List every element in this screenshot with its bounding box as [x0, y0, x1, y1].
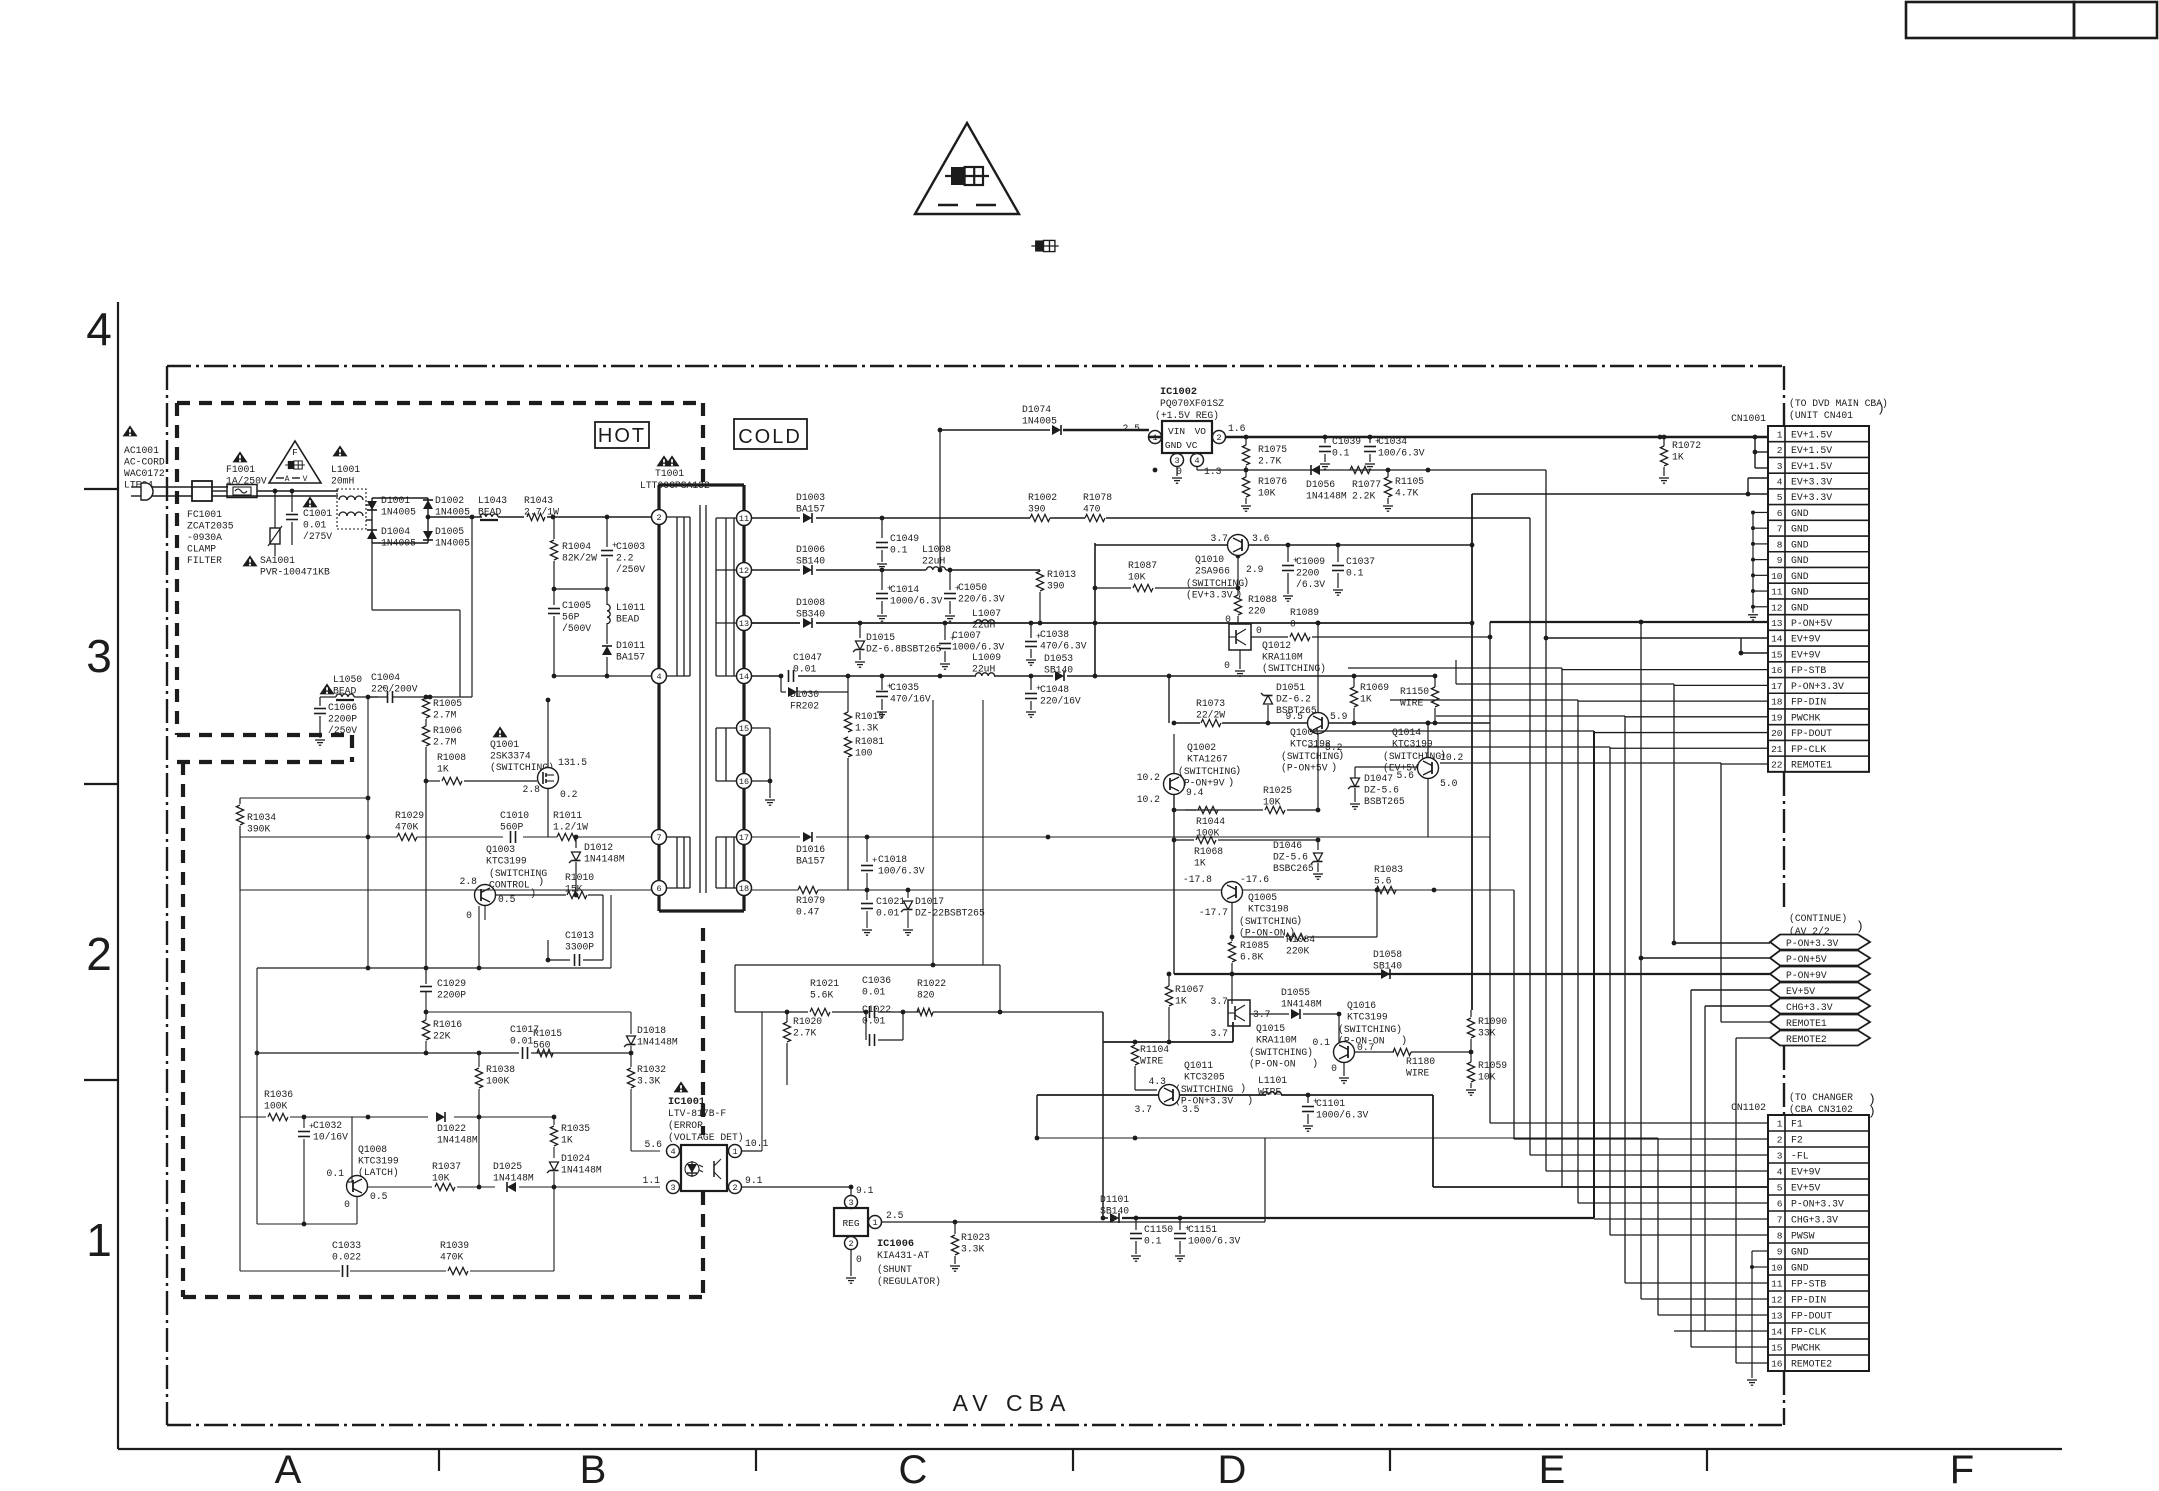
svg-text:Q1010: Q1010	[1195, 554, 1224, 565]
svg-text:C1150: C1150	[1144, 1224, 1173, 1235]
svg-text:DZ-22BSBT265: DZ-22BSBT265	[915, 908, 985, 919]
svg-text:EV+1.5V: EV+1.5V	[1791, 461, 1832, 472]
wire snubber mid	[552, 587, 610, 592]
grid column label E	[1539, 1448, 1566, 1491]
wire EV+3.3V switched rail	[1095, 543, 1474, 559]
svg-text:10/16V: 10/16V	[313, 1132, 348, 1143]
svg-text:R1083: R1083	[1374, 864, 1403, 875]
capacitor C1038 470/6.3V	[1025, 623, 1087, 665]
svg-text:GND: GND	[1165, 440, 1182, 451]
continuation note (CONTINUE AV 2/2)	[1789, 913, 1864, 937]
ferrite bead L1011	[607, 589, 645, 644]
bus wire	[1513, 890, 1515, 1139]
svg-text:2SK3374: 2SK3374	[490, 751, 531, 762]
svg-text:F1001: F1001	[226, 464, 255, 475]
wire choke taps	[366, 505, 372, 520]
svg-text:Q1004: Q1004	[1290, 727, 1319, 738]
svg-text:C1049: C1049	[890, 533, 919, 544]
svg-text:100K: 100K	[1196, 828, 1219, 839]
svg-text:(UNIT CN401: (UNIT CN401	[1789, 410, 1853, 421]
diode D1053 SB140	[1044, 653, 1073, 681]
capacitor C1032 10/16V	[298, 1115, 348, 1145]
svg-text:11: 11	[1771, 1279, 1783, 1290]
svg-text:2: 2	[656, 513, 661, 523]
resistor R1005 2.7M	[422, 695, 462, 721]
svg-text:3.5: 3.5	[1182, 1104, 1200, 1115]
svg-text:REMOTE2: REMOTE2	[1791, 1359, 1832, 1370]
svg-text:0.5: 0.5	[370, 1191, 388, 1202]
svg-text:4: 4	[1194, 456, 1199, 466]
wire to CN1001	[1594, 732, 1768, 734]
svg-text:(EV+3.3V: (EV+3.3V	[1186, 590, 1233, 601]
svg-text:4: 4	[670, 1147, 675, 1157]
svg-text:R1078: R1078	[1083, 492, 1112, 503]
svg-text:PWCHK: PWCHK	[1791, 712, 1821, 723]
wire to CN1001	[1674, 684, 1768, 686]
diode D1030 FR202	[781, 674, 850, 712]
clamp filter FC1001 ZCAT2035-0930A	[187, 481, 234, 566]
net flag EV+5V	[1770, 983, 1870, 998]
svg-text:0.022: 0.022	[332, 1252, 361, 1263]
svg-text:L1101: L1101	[1258, 1075, 1287, 1086]
wire P-ON+3.3V drive row	[1101, 1022, 1233, 1220]
svg-text:Q1008: Q1008	[358, 1144, 387, 1155]
svg-text:5: 5	[1777, 492, 1783, 503]
transformer pin 12	[737, 563, 752, 578]
svg-text:1: 1	[732, 1147, 737, 1157]
svg-text:D1047: D1047	[1364, 773, 1393, 784]
board outline dash-dot right lower	[1783, 1046, 1785, 1114]
svg-text:R1150: R1150	[1400, 686, 1429, 697]
svg-text:12: 12	[1771, 1295, 1783, 1306]
svg-text:10: 10	[1771, 1263, 1783, 1274]
board outline dash-dot bottom	[167, 1424, 1784, 1426]
bus wire	[1657, 1138, 1659, 1315]
svg-text:7: 7	[1777, 524, 1783, 535]
svg-text:1N4005: 1N4005	[435, 507, 470, 518]
net flag REMOTE2	[1770, 1031, 1870, 1046]
svg-text:8: 8	[1777, 539, 1783, 550]
svg-text:8: 8	[1777, 1231, 1783, 1242]
resistor R1006 2.7M	[422, 719, 462, 984]
svg-text:9.1: 9.1	[856, 1185, 874, 1196]
svg-text:33K: 33K	[1478, 1028, 1496, 1039]
svg-text:FR202: FR202	[790, 701, 819, 712]
resistor R1081 100	[844, 736, 884, 890]
choke L1001 20mH	[331, 445, 360, 486]
board outline dash-dot right upper	[1783, 366, 1785, 426]
svg-text:0.1: 0.1	[1332, 448, 1350, 459]
resistor R1090 33K	[1467, 1010, 1507, 1052]
grid row label 3	[86, 630, 112, 682]
svg-text:5.0: 5.0	[1440, 778, 1458, 789]
transistor Q1008 KTC3199 latch	[327, 1144, 399, 1210]
COLD label	[734, 419, 807, 449]
bead L1050	[320, 674, 378, 700]
bus wire	[1735, 1038, 1737, 1363]
svg-text:3: 3	[86, 630, 112, 682]
svg-text:B: B	[580, 1448, 607, 1491]
svg-text:-17.8: -17.8	[1183, 874, 1212, 885]
wire pin4 loop	[552, 674, 652, 679]
svg-text:C1048: C1048	[1040, 684, 1069, 695]
svg-text:(+1.5V REG): (+1.5V REG)	[1155, 410, 1219, 421]
transistor Q1001 2SK3374 switching	[490, 726, 587, 800]
svg-text:GND: GND	[1791, 524, 1809, 535]
diode D1002 1N4005	[423, 495, 470, 518]
zener D1015 DZ-6.8BSBT265	[853, 623, 942, 667]
resistor R1084 220K	[1230, 888, 1380, 957]
svg-text:560: 560	[533, 1040, 551, 1051]
svg-text:R1016: R1016	[433, 1019, 462, 1030]
svg-text:GND: GND	[1791, 571, 1809, 582]
svg-text:VO: VO	[1195, 426, 1207, 437]
wire latch base/collector	[257, 1053, 432, 1226]
svg-text:PVR-100471KB: PVR-100471KB	[260, 567, 330, 578]
svg-text:C1151: C1151	[1188, 1224, 1217, 1235]
svg-text:1.3: 1.3	[1204, 466, 1222, 477]
resistor R1020 2.7K	[783, 1010, 822, 1085]
zener D1046 DZ-5.6 BSBC265	[1273, 840, 1323, 879]
hot area dashed divider lower	[701, 928, 705, 1297]
svg-text:2.9: 2.9	[1246, 564, 1264, 575]
svg-text:3: 3	[1777, 1151, 1783, 1162]
resistor R1180 WIRE	[1393, 1048, 1473, 1078]
svg-text:13: 13	[1771, 618, 1783, 629]
diode D1024 1N4148M	[547, 1153, 602, 1271]
grid column tick	[1706, 1449, 1708, 1471]
svg-text:0.1: 0.1	[1346, 568, 1364, 579]
svg-text:3.7: 3.7	[1211, 996, 1229, 1007]
capacitor C1021 0.01	[861, 890, 905, 935]
grid column label C	[899, 1448, 928, 1491]
svg-text:1000/6.3V: 1000/6.3V	[1316, 1110, 1369, 1121]
svg-text:6: 6	[1777, 1199, 1783, 1210]
svg-text:10.2: 10.2	[1137, 794, 1160, 805]
svg-text:): )	[1243, 577, 1249, 589]
svg-text:2.7K: 2.7K	[793, 1028, 816, 1039]
svg-text:(REGULATOR): (REGULATOR)	[877, 1276, 941, 1287]
svg-text:4: 4	[1777, 1167, 1783, 1178]
svg-text:3.3K: 3.3K	[961, 1244, 984, 1255]
svg-text:VIN: VIN	[1168, 426, 1185, 437]
svg-text:(P-ON+5V: (P-ON+5V	[1281, 763, 1328, 774]
svg-text:10.2: 10.2	[1137, 772, 1160, 783]
svg-text:R1076: R1076	[1258, 476, 1287, 487]
svg-text:19: 19	[1771, 712, 1783, 723]
capacitor C1014 1000/6.3V	[876, 570, 943, 621]
svg-text:390K: 390K	[247, 824, 270, 835]
svg-text:EV+1.5V: EV+1.5V	[1791, 445, 1832, 456]
transistor Q1010 2SA966 switching EV+3.3V	[1186, 533, 1270, 601]
svg-text:EV+5V: EV+5V	[1791, 1183, 1821, 1194]
inductor L1009 22uH	[972, 652, 1001, 676]
svg-text:R1068: R1068	[1194, 846, 1223, 857]
resistor R1034 390K	[236, 796, 370, 890]
svg-text:D1002: D1002	[435, 495, 464, 506]
svg-text:R1089: R1089	[1290, 607, 1319, 618]
svg-text:C1036: C1036	[862, 975, 891, 986]
svg-text:C1050: C1050	[958, 582, 987, 593]
svg-text:C1032: C1032	[313, 1120, 342, 1131]
svg-text:2.7K: 2.7K	[1258, 456, 1281, 467]
svg-text:HOT: HOT	[598, 425, 646, 447]
resistor R1032 3.3K	[627, 1053, 666, 1151]
diode D1012 1N4148M	[569, 835, 625, 895]
svg-text:3.7: 3.7	[1211, 533, 1229, 544]
resistor R1025 10K	[1185, 785, 1320, 814]
wire opto connections	[742, 1012, 853, 1189]
resistor R1072 1K	[1659, 435, 1701, 484]
net flag REMOTE1	[1770, 1015, 1870, 1030]
svg-text:20: 20	[1771, 728, 1783, 739]
diode D1018 1N4148M	[624, 1012, 678, 1053]
diode D1056 1N4148M	[1306, 465, 1347, 502]
bus wire	[1690, 990, 1692, 1347]
svg-text:11: 11	[739, 514, 749, 524]
svg-text:R1013: R1013	[1047, 569, 1076, 580]
svg-text:1.6: 1.6	[1228, 423, 1246, 434]
inductor L1007 22uH	[972, 608, 1001, 631]
svg-text:DZ-5.6: DZ-5.6	[1273, 852, 1308, 863]
resistor R1021 5.6K	[735, 978, 866, 1016]
svg-text:R1019: R1019	[855, 711, 884, 722]
svg-text:WIRE: WIRE	[1140, 1056, 1163, 1067]
svg-text:KTC3199: KTC3199	[1392, 739, 1433, 750]
svg-text:470/16V: 470/16V	[890, 694, 931, 705]
svg-text:R1075: R1075	[1258, 444, 1287, 455]
svg-text:/500V: /500V	[562, 623, 591, 634]
svg-text:R1090: R1090	[1478, 1016, 1507, 1027]
diode D1003 BA157	[796, 492, 825, 523]
svg-text:BA157: BA157	[796, 856, 825, 867]
transformer pin 17	[737, 830, 752, 845]
svg-text:16: 16	[1771, 1359, 1783, 1370]
svg-text:56P: 56P	[562, 612, 580, 623]
svg-text:WIRE: WIRE	[1400, 698, 1423, 709]
svg-text:SB340: SB340	[796, 609, 825, 620]
varistor SA1001	[243, 491, 330, 578]
resistor R1104 WIRE	[1131, 1042, 1169, 1090]
title block box 1	[1906, 2, 2074, 38]
svg-text:D1055: D1055	[1281, 987, 1310, 998]
svg-text:17: 17	[739, 833, 749, 843]
svg-text:KTC3199: KTC3199	[1347, 1012, 1388, 1023]
svg-text:(P-ON-ON: (P-ON-ON	[1249, 1059, 1296, 1070]
svg-text:22: 22	[1771, 759, 1783, 770]
svg-text:L1001: L1001	[331, 464, 360, 475]
svg-text:5.9: 5.9	[1330, 711, 1348, 722]
svg-text:/250V: /250V	[328, 725, 357, 736]
svg-text:BEAD: BEAD	[478, 507, 501, 518]
svg-text:1N4005: 1N4005	[435, 538, 470, 549]
svg-text:FC1001: FC1001	[187, 509, 222, 520]
capacitor C1049 0.1	[876, 518, 919, 569]
svg-text:SA1001: SA1001	[260, 555, 295, 566]
capacitor C1003 2.2/250V	[601, 517, 645, 589]
hot area dashed left lower	[181, 762, 185, 1297]
connector CN1102 (TO CHANGER / CBA CN3102)	[1731, 1092, 1876, 1371]
svg-text:R1020: R1020	[793, 1016, 822, 1027]
resistor R1022 820	[917, 978, 1002, 1016]
svg-text:1.1: 1.1	[643, 1175, 661, 1186]
svg-text:D1011: D1011	[616, 640, 645, 651]
resistor R1087 10K	[1095, 560, 1240, 592]
svg-text:2: 2	[1777, 1135, 1783, 1146]
svg-text:10K: 10K	[1478, 1072, 1496, 1083]
svg-text:SB140: SB140	[1100, 1206, 1129, 1217]
board outline dash-dot right mid	[1783, 772, 1785, 908]
wire IC1006 pin1	[882, 1138, 1265, 1224]
IC1002 PQ070XF01SZ +1.5V regulator	[1123, 386, 1246, 483]
svg-text:3.6: 3.6	[1252, 533, 1270, 544]
svg-text:100K: 100K	[486, 1076, 509, 1087]
svg-text:R1025: R1025	[1263, 785, 1292, 796]
svg-text:ZCAT2035: ZCAT2035	[187, 521, 234, 532]
grid column tick	[1389, 1449, 1391, 1471]
svg-text:BEAD: BEAD	[616, 614, 639, 625]
diode D1022 1N4148M	[366, 1112, 554, 1146]
svg-text:0.1: 0.1	[1313, 1037, 1331, 1048]
svg-text:Q1002: Q1002	[1187, 742, 1216, 753]
wire pin11 rail +3.3V	[751, 428, 1530, 521]
svg-text:(SWITCHING: (SWITCHING	[1178, 766, 1236, 777]
svg-text:PWCHK: PWCHK	[1791, 1343, 1821, 1354]
common-mode choke	[337, 489, 366, 529]
svg-text:/6.3V: /6.3V	[1296, 579, 1325, 590]
svg-text:0: 0	[1256, 625, 1262, 636]
svg-text:0: 0	[1290, 619, 1296, 630]
wire pin12 rail	[751, 568, 1040, 573]
diode D1006 SB140	[796, 544, 825, 575]
svg-text:D: D	[1218, 1448, 1247, 1491]
optocoupler IC1001 LTV-817B-F error voltage det	[643, 1081, 769, 1193]
svg-text:1.2/1W: 1.2/1W	[553, 822, 588, 833]
wire feedback row	[240, 836, 652, 838]
svg-text:PQ070XF01SZ: PQ070XF01SZ	[1160, 398, 1224, 409]
svg-text:): )	[1235, 765, 1241, 777]
svg-text:CLAMP: CLAMP	[187, 544, 216, 555]
svg-text:GND: GND	[1791, 587, 1809, 598]
svg-text:2200P: 2200P	[437, 990, 466, 1001]
resistor R1043 2.7/1W	[498, 495, 559, 521]
svg-text:10K: 10K	[1258, 488, 1276, 499]
svg-text:2: 2	[1216, 433, 1221, 443]
svg-text:220: 220	[1248, 606, 1266, 617]
svg-text:DZ-6.2: DZ-6.2	[1276, 694, 1311, 705]
svg-text:L1050: L1050	[333, 674, 362, 685]
svg-text:1: 1	[1777, 429, 1783, 440]
wire VC feedback	[1153, 468, 1546, 473]
svg-text:(TO CHANGER: (TO CHANGER	[1789, 1092, 1853, 1103]
svg-text:13: 13	[1771, 1311, 1783, 1322]
svg-text:P-ON+3.3V: P-ON+3.3V	[1786, 938, 1839, 949]
resistor R1011 1.2/1W	[553, 810, 588, 841]
svg-text:3300P: 3300P	[565, 942, 594, 953]
fuse warning triangle	[915, 123, 1019, 214]
svg-text:15: 15	[1771, 649, 1783, 660]
wire Q1001 drain/source	[546, 698, 551, 837]
diode D1025 1N4148M	[493, 1161, 660, 1192]
svg-text:0: 0	[1224, 660, 1230, 671]
fuse F1001 1A/250V	[226, 451, 267, 497]
svg-text:C1101: C1101	[1316, 1098, 1345, 1109]
svg-text:FP-CLK: FP-CLK	[1791, 1327, 1826, 1338]
grid column tick	[438, 1449, 440, 1471]
fuse rating triangle	[269, 441, 321, 484]
capacitor C1048 220/16V	[1025, 674, 1081, 718]
svg-text:18: 18	[739, 884, 749, 894]
grid row label 4	[86, 303, 112, 355]
svg-text:R1079: R1079	[796, 895, 825, 906]
grid row label 1	[86, 1214, 112, 1266]
svg-text:R1072: R1072	[1672, 440, 1701, 451]
svg-text:22/2W: 22/2W	[1196, 710, 1225, 721]
capacitor C1035 470/16V	[876, 674, 931, 718]
hot area dashed notch top	[177, 733, 352, 737]
svg-text:(SWITCHING: (SWITCHING	[1175, 1084, 1233, 1095]
svg-text:3.3K: 3.3K	[637, 1076, 660, 1087]
transistor Q1003 KTC3199 switching control	[460, 844, 548, 921]
svg-text:C1013: C1013	[565, 930, 594, 941]
svg-text:0.47: 0.47	[796, 907, 819, 918]
capacitor C1034 100/6.3V	[1364, 436, 1425, 469]
diode D1074 1N4005	[940, 404, 1149, 570]
svg-text:100/6.3V: 100/6.3V	[878, 866, 925, 877]
svg-text:0.1: 0.1	[327, 1168, 345, 1179]
svg-text:R1011: R1011	[553, 810, 582, 821]
svg-text:): )	[1312, 1058, 1318, 1070]
svg-text:D1051: D1051	[1276, 682, 1305, 693]
resistor R1038 100K	[475, 1053, 515, 1187]
svg-text:COLD: COLD	[738, 426, 802, 448]
bus wire	[1720, 763, 1722, 1022]
capacitor C1005 56P/500V	[548, 589, 591, 676]
resistor R1059 10K	[1466, 1052, 1507, 1095]
capacitor C1010 560P	[500, 810, 529, 843]
transformer T1001 LTT00CPSA132	[640, 455, 744, 911]
svg-text:FILTER: FILTER	[187, 555, 222, 566]
diode D1016 BA157	[796, 832, 825, 867]
svg-text:1N4148M: 1N4148M	[637, 1037, 678, 1048]
svg-text:220/16V: 220/16V	[1040, 696, 1081, 707]
svg-text:C: C	[899, 1448, 928, 1491]
svg-text:220K: 220K	[1286, 946, 1309, 957]
svg-text:Q1003: Q1003	[486, 844, 515, 855]
CN1001 ground bus	[1748, 510, 1768, 620]
svg-text:2.5: 2.5	[1123, 423, 1141, 434]
resistor R1088 220	[1225, 556, 1277, 625]
svg-text:D1003: D1003	[796, 492, 825, 503]
svg-text:10K: 10K	[1128, 572, 1146, 583]
svg-text:1000/6.3V: 1000/6.3V	[952, 642, 1005, 653]
svg-text:WIRE: WIRE	[1406, 1068, 1429, 1079]
transformer pin 18	[737, 881, 752, 896]
svg-text:21: 21	[1771, 744, 1783, 755]
svg-text:10K: 10K	[432, 1173, 450, 1184]
svg-text:C1039: C1039	[1332, 436, 1361, 447]
svg-text:100/6.3V: 100/6.3V	[1378, 448, 1425, 459]
svg-text:R1035: R1035	[561, 1123, 590, 1134]
svg-text:KRA110M: KRA110M	[1256, 1035, 1297, 1046]
svg-text:R1088: R1088	[1248, 594, 1277, 605]
svg-text:): )	[1877, 401, 1885, 416]
svg-text:D1016: D1016	[796, 844, 825, 855]
grid row tick 2/1	[84, 1079, 118, 1081]
hot area dashed notch bottom	[177, 760, 352, 764]
diode D1005 1N4005	[423, 526, 470, 549]
svg-text:100: 100	[855, 748, 873, 759]
